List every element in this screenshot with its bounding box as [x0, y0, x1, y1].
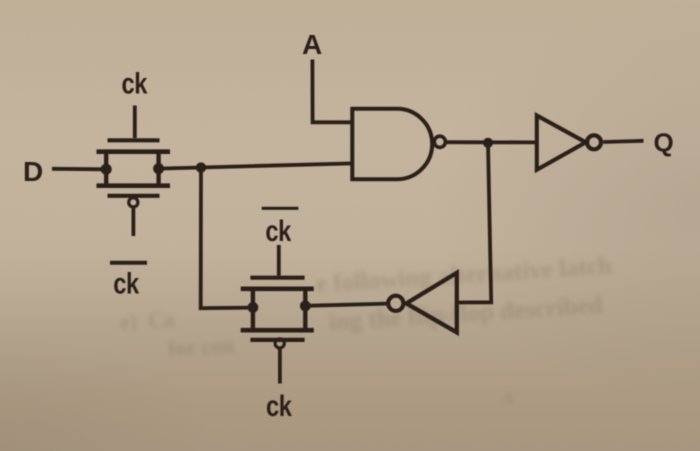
wire ck stub below TG2 — [278, 349, 282, 383]
transistor TG1 PMOS gate bar — [108, 194, 160, 198]
wire U1 output to inverter U2 — [446, 140, 537, 144]
wire TG1 right leg — [156, 152, 160, 186]
transistor TG1 NMOS channel bar — [97, 149, 171, 154]
transistor TG2 PMOS gate bar — [250, 338, 304, 342]
wire A input — [312, 60, 352, 123]
ghost small A mark — [502, 390, 514, 408]
nand-gate U1 arc — [397, 109, 432, 179]
wire ck gate stub TG1 — [133, 106, 137, 139]
node TG1 left junction — [101, 164, 112, 175]
ghost bleed-through text line 2 — [328, 292, 604, 337]
transistor TG1 NMOS gate bar — [108, 138, 160, 142]
wire TG1 left leg — [104, 152, 108, 186]
ghost bleed-through item label e) — [119, 307, 175, 336]
node Q-bar junction — [483, 138, 493, 148]
wire TG1 output to NAND — [159, 163, 353, 168]
bubble U3 output — [388, 296, 403, 311]
transistor TG1 PMOS channel bar — [97, 183, 171, 188]
transistor TG2 NMOS channel bar — [241, 286, 314, 291]
bubble TG2 PMOS gate — [275, 339, 284, 348]
inverter U3 triangle (feedback, points left) — [406, 273, 457, 333]
nand-gate U1 body — [352, 109, 397, 179]
wire TG2 right leg — [303, 289, 307, 331]
wire TG2 left leg — [251, 289, 255, 331]
inverter U2 triangle — [537, 116, 586, 170]
label ck overbar (below TG1) — [110, 261, 147, 265]
node feedback junction on D line — [196, 162, 206, 172]
label ck overbar (above TG2) — [262, 207, 299, 210]
transistor TG2 NMOS gate bar — [250, 276, 304, 280]
wire feedback vertical left — [201, 168, 253, 309]
wire U2 output to Q — [603, 141, 643, 142]
wire ckbar gate stub TG2 — [277, 245, 281, 276]
ghost bleed-through text line 1 — [315, 252, 613, 299]
wire D input — [52, 167, 106, 171]
bubble U1 output — [434, 136, 445, 147]
wire feedback vertical right — [458, 143, 492, 303]
transistor TG2 PMOS channel bar — [241, 328, 314, 333]
node TG2 left junction — [248, 302, 259, 313]
paper grain — [0, 0, 1, 1]
node TG2 right junction — [300, 301, 311, 312]
wire ckbar stub below TG1 — [131, 208, 135, 236]
wire U3 output to TG2 — [305, 304, 388, 306]
ghost bleed-through "for con" — [167, 332, 234, 361]
node TG1 right junction — [153, 163, 164, 174]
bubble U2 output — [587, 135, 601, 149]
bubble TG1 PMOS gate — [129, 198, 138, 207]
